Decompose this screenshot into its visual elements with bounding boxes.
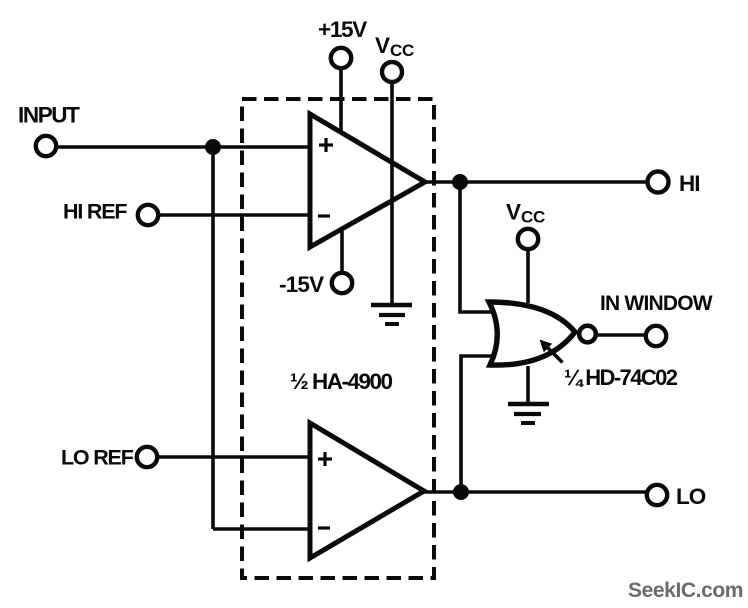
wire bubble to IN WINDOW — [596, 333, 646, 337]
svg-text:V: V — [375, 33, 390, 58]
terminal LO — [647, 485, 667, 505]
svg-text:LO: LO — [676, 484, 706, 509]
U1B minus pin — [318, 526, 330, 529]
U1A minus pin — [318, 214, 330, 217]
annotation arrow to gate — [540, 340, 563, 363]
wire U1B output to LO — [424, 490, 647, 494]
terminal +15V — [331, 48, 351, 68]
svg-text:LO REF: LO REF — [61, 446, 134, 470]
wire HI REF to U1A - input — [159, 213, 310, 217]
terminal VCC (gate) — [518, 229, 538, 249]
node HI junction — [452, 174, 468, 190]
wire input junction down — [211, 147, 215, 529]
NOR gate U2 (1/4 HD-74C02) — [489, 302, 575, 365]
wire LO junction to NOR bottom input — [461, 356, 499, 492]
svg-text:HI REF: HI REF — [63, 200, 127, 224]
svg-text:CC: CC — [390, 41, 414, 60]
wire HI junction to NOR top input — [460, 182, 498, 312]
wire VCC down to ground — [390, 82, 394, 304]
wire input to U1A + input — [57, 145, 310, 149]
terminal -15V — [332, 273, 352, 293]
ground (left) — [371, 305, 412, 324]
dashed package outline (HA-4900) — [242, 99, 434, 578]
ground (gate) — [508, 404, 549, 423]
wire U1A V- to -15V — [340, 228, 344, 273]
U1A plus pin — [319, 138, 333, 152]
terminal VCC (left) — [382, 62, 402, 82]
NOR gate output bubble — [579, 326, 596, 343]
node input junction — [205, 139, 221, 155]
U1B plus pin — [318, 452, 332, 466]
svg-text:HI: HI — [679, 171, 700, 196]
svg-text:-15V: -15V — [279, 272, 324, 297]
wire LO REF to U1B + input — [158, 455, 310, 459]
svg-text:CC: CC — [521, 208, 545, 227]
terminal IN WINDOW — [646, 326, 666, 346]
svg-text:+15V: +15V — [318, 17, 367, 42]
terminal INPUT — [36, 136, 56, 156]
wire VCC to NOR gate — [526, 249, 530, 303]
svg-text:½ HA-4900: ½ HA-4900 — [290, 369, 393, 394]
comparator U1A (1/2 HA-4900, upper) — [310, 114, 425, 247]
svg-text:¼ HD-74C02: ¼ HD-74C02 — [564, 365, 678, 390]
wire to U1B - input — [213, 527, 310, 531]
terminal HI REF — [138, 205, 158, 225]
svg-text:IN WINDOW: IN WINDOW — [600, 292, 713, 315]
wire NOR gate to ground — [526, 366, 530, 403]
comparator U1B (1/2 HA-4900, lower) — [310, 423, 424, 558]
wire +15V to U1A V+ — [339, 68, 343, 133]
wire U1A output to HI — [425, 180, 648, 184]
terminal LO REF — [137, 447, 157, 467]
node LO junction — [453, 484, 469, 500]
terminal HI — [648, 172, 669, 193]
svg-text:V: V — [506, 200, 521, 225]
svg-text:SeekIC.com: SeekIC.com — [628, 579, 743, 602]
svg-text:INPUT: INPUT — [18, 103, 80, 128]
